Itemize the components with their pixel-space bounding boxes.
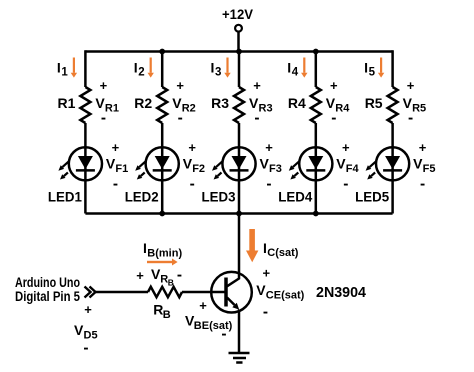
svg-text:V: V xyxy=(183,156,193,172)
svg-text:F3: F3 xyxy=(269,163,282,175)
svg-text:V: V xyxy=(106,156,116,172)
svg-text:LED2: LED2 xyxy=(125,189,159,205)
svg-text:I: I xyxy=(364,60,368,76)
svg-text:R2: R2 xyxy=(182,103,196,115)
svg-text:R1: R1 xyxy=(105,103,119,115)
svg-text:I: I xyxy=(143,240,147,256)
svg-text:V: V xyxy=(74,322,84,338)
svg-text:-: - xyxy=(178,109,183,126)
svg-text:F2: F2 xyxy=(192,163,205,175)
svg-text:R4: R4 xyxy=(335,103,350,115)
svg-text:-: - xyxy=(190,175,195,192)
svg-text:+12V: +12V xyxy=(222,6,254,22)
svg-text:+: + xyxy=(265,140,273,155)
svg-text:+: + xyxy=(100,78,108,93)
svg-text:I: I xyxy=(211,60,215,76)
svg-text:2: 2 xyxy=(138,67,144,79)
svg-text:2N3904: 2N3904 xyxy=(316,285,366,301)
svg-text:V: V xyxy=(336,156,346,172)
svg-text:-: - xyxy=(331,109,336,126)
svg-text:-: - xyxy=(408,109,413,126)
svg-text:1: 1 xyxy=(61,67,68,79)
svg-text:I: I xyxy=(57,60,61,76)
svg-text:R3: R3 xyxy=(211,95,229,111)
svg-text:B: B xyxy=(163,309,171,321)
svg-text:LED3: LED3 xyxy=(202,189,236,205)
svg-text:+: + xyxy=(342,140,350,155)
svg-text:-: - xyxy=(343,175,348,192)
svg-text:R3: R3 xyxy=(259,103,273,115)
svg-text:-: - xyxy=(263,303,268,320)
svg-text:-: - xyxy=(254,109,259,126)
svg-text:I: I xyxy=(134,60,138,76)
svg-text:CE(sat): CE(sat) xyxy=(266,290,305,302)
svg-text:F4: F4 xyxy=(346,163,360,175)
svg-text:I: I xyxy=(263,240,267,256)
svg-text:R5: R5 xyxy=(412,103,426,115)
svg-text:-: - xyxy=(177,266,182,283)
svg-text:-: - xyxy=(113,175,118,192)
svg-text:+: + xyxy=(188,140,196,155)
svg-text:-: - xyxy=(83,339,88,356)
svg-text:+: + xyxy=(407,78,415,93)
svg-text:5: 5 xyxy=(369,67,376,79)
svg-text:V: V xyxy=(256,282,266,298)
svg-text:B(min): B(min) xyxy=(147,248,182,260)
svg-text:+: + xyxy=(263,266,271,281)
svg-text:Digital Pin 5: Digital Pin 5 xyxy=(15,289,80,304)
svg-text:-: - xyxy=(101,109,106,126)
svg-text:F5: F5 xyxy=(423,163,436,175)
svg-text:+: + xyxy=(330,78,338,93)
svg-text:I: I xyxy=(287,60,291,76)
svg-text:+: + xyxy=(84,302,92,317)
svg-text:+: + xyxy=(253,78,261,93)
svg-text:+: + xyxy=(176,78,184,93)
svg-text:R1: R1 xyxy=(57,95,75,111)
svg-text:+: + xyxy=(199,298,207,313)
svg-text:+: + xyxy=(112,140,120,155)
svg-text:LED4: LED4 xyxy=(278,189,312,205)
svg-text:-: - xyxy=(221,325,226,342)
svg-text:+: + xyxy=(419,140,427,155)
svg-text:R2: R2 xyxy=(134,95,152,111)
svg-text:LED5: LED5 xyxy=(355,189,389,205)
svg-text:F1: F1 xyxy=(115,163,128,175)
svg-text:V: V xyxy=(413,156,423,172)
svg-text:BE(sat): BE(sat) xyxy=(194,320,233,332)
svg-text:-: - xyxy=(420,175,425,192)
svg-text:V: V xyxy=(260,156,270,172)
svg-text:R4: R4 xyxy=(288,95,306,111)
svg-text:Arduino Uno: Arduino Uno xyxy=(15,275,80,290)
svg-text:LED1: LED1 xyxy=(48,189,82,205)
svg-text:R5: R5 xyxy=(365,95,383,111)
svg-text:3: 3 xyxy=(215,67,221,79)
svg-text:4: 4 xyxy=(292,67,299,79)
svg-text:-: - xyxy=(266,175,271,192)
svg-text:C(sat): C(sat) xyxy=(267,247,299,259)
svg-text:B: B xyxy=(168,278,174,288)
svg-text:+: + xyxy=(136,268,144,283)
